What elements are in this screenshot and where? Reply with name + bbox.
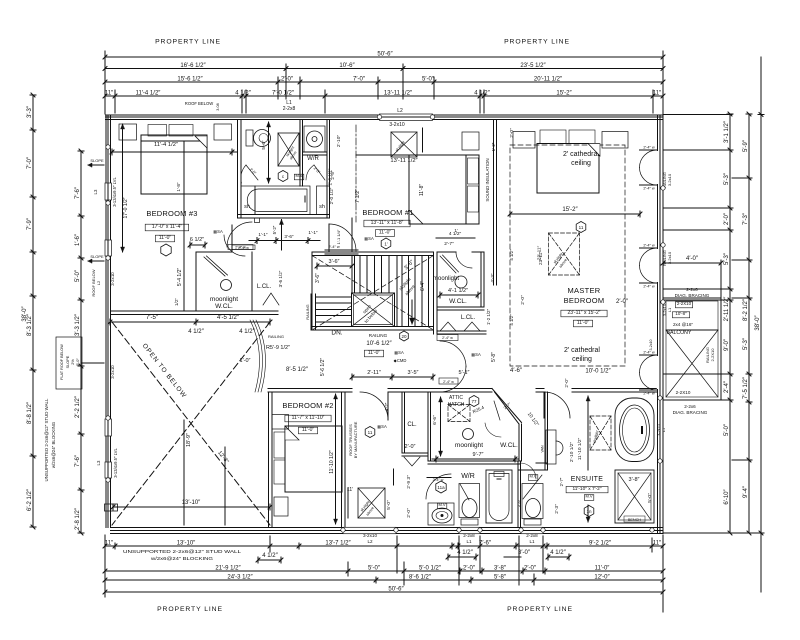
svg-text:1′: 1′ [454, 228, 457, 233]
svg-text:2′-6″: 2′-6″ [516, 498, 521, 507]
svg-text:13′-7 1/2″: 13′-7 1/2″ [325, 540, 351, 546]
svg-text:2x4 @16″: 2x4 @16″ [673, 322, 693, 327]
svg-text:2′-0″: 2′-0″ [509, 128, 515, 138]
svg-text:10′-8″: 10′-8″ [675, 311, 687, 316]
svg-text:1′-2 1/2″: 1′-2 1/2″ [486, 309, 491, 325]
svg-text:BEDROOM #2: BEDROOM #2 [282, 401, 333, 410]
svg-text:M.V: M.V [529, 474, 536, 479]
svg-text:23′-5 1/2″: 23′-5 1/2″ [520, 63, 546, 69]
svg-text:L3: L3 [93, 189, 98, 194]
svg-text:2′-0″: 2′-0″ [724, 212, 730, 225]
svg-text:W.CL.: W.CL. [449, 298, 467, 305]
svg-text:12′-3″: 12′-3″ [216, 450, 229, 465]
svg-text:2-2x8: 2-2x8 [283, 106, 296, 112]
svg-text:sh: sh [244, 204, 250, 210]
svg-text:moonlight: moonlight [455, 442, 483, 449]
svg-text:L2: L2 [96, 280, 101, 285]
svg-text:ROOF BELOW: ROOF BELOW [185, 101, 213, 106]
svg-text:SLOPE: SLOPE [90, 254, 104, 259]
svg-text:3′-8″: 3′-8″ [629, 477, 640, 483]
svg-text:24′-3 1/2″: 24′-3 1/2″ [227, 574, 253, 580]
svg-text:13′-10″: 13′-10″ [177, 540, 196, 546]
svg-text:1/2″: 1/2″ [174, 298, 179, 306]
svg-text:1′-2″: 1′-2″ [491, 142, 496, 151]
svg-text:moonlight: moonlight [210, 296, 238, 303]
svg-text:2′-7″: 2′-7″ [444, 241, 454, 247]
svg-text:▦SA: ▦SA [394, 350, 404, 355]
svg-text:W.CL.: W.CL. [500, 442, 518, 449]
svg-text:1′-1″: 1′-1″ [258, 232, 268, 237]
svg-text:11: 11 [368, 430, 373, 435]
svg-text:BEDROOM #3: BEDROOM #3 [146, 209, 197, 218]
svg-text:7′-6″: 7′-6″ [479, 540, 492, 546]
svg-text:L2: L2 [397, 108, 403, 114]
svg-text:5′-4 1/2″: 5′-4 1/2″ [177, 268, 183, 287]
svg-text:2′-11″: 2′-11″ [367, 370, 381, 376]
svg-text:20: 20 [401, 334, 407, 339]
svg-text:3-2x10: 3-2x10 [649, 340, 653, 351]
svg-text:◆CMD: ◆CMD [394, 358, 407, 363]
svg-text:5′-0″: 5′-0″ [75, 269, 81, 282]
svg-text:OPEN TO BELOW: OPEN TO BELOW [141, 342, 188, 399]
svg-text:11′-0″: 11′-0″ [577, 320, 590, 326]
svg-text:3-2x10: 3-2x10 [667, 251, 672, 264]
svg-text:3′-6″: 3′-6″ [284, 234, 294, 239]
svg-text:15′-6 1/2″: 15′-6 1/2″ [177, 76, 203, 82]
svg-text:5′-3″: 5′-3″ [724, 172, 730, 185]
svg-text:PROPERTY LINE: PROPERTY LINE [157, 606, 223, 613]
svg-text:2′-0″: 2′-0″ [564, 378, 569, 388]
svg-text:5′-0″: 5′-0″ [368, 565, 381, 571]
svg-text:6′-6″: 6′-6″ [432, 415, 438, 425]
svg-text:2′-0″: 2′-0″ [524, 565, 537, 571]
svg-text:BEDROOM #1: BEDROOM #1 [362, 208, 413, 217]
svg-text:11′-10 1/2″: 11′-10 1/2″ [329, 450, 335, 474]
svg-text:5′-0″: 5′-0″ [647, 493, 653, 503]
svg-text:13′-10″: 13′-10″ [182, 500, 201, 506]
svg-text:11′-4 1/2″: 11′-4 1/2″ [154, 142, 178, 148]
svg-text:7′-6″: 7′-6″ [75, 454, 81, 467]
svg-text:2′-5″: 2′-5″ [330, 170, 335, 180]
svg-text:5′-6 1/2″: 5′-6 1/2″ [320, 358, 326, 377]
svg-text:11′-7″ x 11′-10″: 11′-7″ x 11′-10″ [292, 415, 325, 421]
svg-text:11′-0″: 11′-0″ [368, 350, 381, 356]
svg-text:38′-0″: 38′-0″ [22, 305, 28, 321]
svg-text:ceiling: ceiling [571, 160, 591, 167]
svg-text:11′-0″: 11′-0″ [302, 427, 315, 433]
svg-text:13′-11 1/2″: 13′-11 1/2″ [390, 158, 417, 164]
svg-text:6′-2 1/2″: 6′-2 1/2″ [27, 488, 33, 511]
svg-text:50′-6″: 50′-6″ [388, 586, 404, 592]
svg-text:2′-4″ w: 2′-4″ w [643, 146, 655, 150]
svg-text:1′-8″: 1′-8″ [176, 182, 181, 192]
svg-text:3′-6″: 3′-6″ [403, 259, 415, 271]
svg-text:5′-6″: 5′-6″ [261, 140, 266, 150]
svg-text:12′-0″: 12′-0″ [594, 574, 610, 580]
svg-text:11″: 11″ [105, 90, 114, 96]
svg-text:CL.: CL. [407, 422, 417, 428]
svg-text:BY MANUFACTURE: BY MANUFACTURE [353, 421, 358, 458]
svg-text:2′ cathedral: 2′ cathedral [564, 347, 600, 354]
svg-text:3-13/4x9.5″ LVL: 3-13/4x9.5″ LVL [112, 177, 117, 207]
svg-text:DIAG. BRACING: DIAG. BRACING [675, 293, 710, 298]
svg-text:L1: L1 [529, 539, 535, 544]
svg-text:BALCONY: BALCONY [667, 330, 692, 336]
svg-text:3-2x10: 3-2x10 [110, 365, 115, 379]
svg-text:UNSUPPORTED 2-2x6@12″ STUD: UNSUPPORTED 2-2x6@12″ STUD WALL [123, 549, 242, 554]
svg-text:5′-8″: 5′-8″ [494, 574, 507, 580]
svg-text:11′-0″: 11′-0″ [595, 565, 611, 571]
svg-text:13′-11″ x 11′-8″: 13′-11″ x 11′-8″ [371, 220, 404, 226]
svg-text:5′-1″: 5′-1″ [459, 370, 470, 376]
svg-text:77: 77 [471, 399, 477, 404]
svg-text:1′-1″: 1′-1″ [308, 230, 318, 235]
svg-text:23′-11″: 23′-11″ [537, 245, 543, 260]
svg-text:23′-11″ x 15′-2″: 23′-11″ x 15′-2″ [567, 310, 600, 316]
svg-text:RAILING: RAILING [268, 334, 284, 339]
svg-text:3′-3″: 3′-3″ [27, 105, 33, 118]
svg-text:4 1/2″: 4 1/2″ [188, 329, 204, 335]
svg-text:4 1/2″: 4 1/2″ [235, 90, 251, 96]
svg-text:2′-10″: 2′-10″ [336, 135, 342, 148]
svg-text:2′-0″: 2′-0″ [405, 444, 416, 450]
svg-text:2′-4″ w: 2′-4″ w [643, 351, 655, 355]
svg-text:W/R: W/R [461, 473, 475, 480]
svg-text:FLAT ROOF BELOW: FLAT ROOF BELOW [60, 344, 64, 380]
svg-text:2′-4″ w: 2′-4″ w [643, 285, 655, 289]
svg-text:11′-0″: 11′-0″ [379, 230, 392, 236]
svg-text:5′-0″: 5′-0″ [724, 423, 730, 436]
svg-text:2′-4″ w: 2′-4″ w [643, 187, 655, 191]
svg-text:2′ cathedral: 2′ cathedral [563, 151, 599, 158]
svg-text:5′-3″: 5′-3″ [724, 252, 730, 265]
svg-text:2-2X10: 2-2X10 [710, 348, 715, 362]
svg-text:L1: L1 [662, 428, 666, 432]
svg-text:2′-4″ w: 2′-4″ w [442, 336, 453, 340]
svg-text:2′-4″ w: 2′-4″ w [328, 245, 340, 249]
svg-text:7′-5″: 7′-5″ [146, 315, 159, 321]
svg-text:▦SA: ▦SA [471, 352, 481, 357]
svg-text:7′-9″: 7′-9″ [27, 217, 33, 230]
svg-text:10′-0 1/2″: 10′-0 1/2″ [585, 369, 611, 375]
svg-text:1′: 1′ [384, 241, 388, 246]
svg-text:11″: 11″ [653, 90, 662, 96]
svg-text:2′-7″: 2′-7″ [559, 477, 564, 486]
svg-text:5′-8″: 5′-8″ [491, 352, 497, 362]
svg-text:M.V: M.V [295, 173, 302, 178]
svg-text:5′-3″: 5′-3″ [743, 337, 749, 350]
svg-text:BEDROOM: BEDROOM [564, 296, 605, 305]
svg-text:5′-0″: 5′-0″ [386, 500, 392, 510]
svg-text:R5′-9 1/2″: R5′-9 1/2″ [266, 345, 290, 351]
svg-text:3′-8″: 3′-8″ [494, 565, 507, 571]
svg-text:7′-0″: 7′-0″ [353, 76, 366, 82]
svg-text:21′-9 1/2″: 21′-9 1/2″ [215, 565, 241, 571]
svg-text:7′-0 1/2″: 7′-0 1/2″ [272, 90, 295, 96]
svg-text:11″: 11″ [105, 540, 114, 546]
svg-text:3-2x10: 3-2x10 [657, 424, 661, 436]
svg-text:4′-6″: 4′-6″ [510, 368, 523, 374]
svg-text:5′-0 1/2″: 5′-0 1/2″ [419, 565, 442, 571]
svg-text:W/R: W/R [307, 156, 319, 162]
svg-text:2′-4″ w: 2′-4″ w [238, 246, 249, 250]
svg-text:15′-2″: 15′-2″ [562, 207, 578, 213]
svg-text:HATCH: HATCH [448, 402, 465, 408]
svg-text:18′-9″: 18′-9″ [186, 433, 192, 447]
svg-text:6′-4″: 6′-4″ [420, 281, 426, 291]
svg-text:3′-6″: 3′-6″ [329, 259, 340, 265]
svg-text:RAILING: RAILING [369, 333, 388, 338]
svg-text:PROPERTY LINE: PROPERTY LINE [507, 606, 573, 613]
svg-text:7 1/2″: 7 1/2″ [355, 189, 361, 203]
svg-text:1n: 1n [586, 509, 592, 514]
svg-text:2′-9 3″: 2′-9 3″ [406, 475, 412, 489]
svg-text:4 1/2″: 4 1/2″ [262, 553, 278, 559]
svg-text:2′-4″ w: 2′-4″ w [643, 244, 655, 248]
svg-text:11′-8″: 11′-8″ [419, 184, 425, 197]
svg-text:7′-3″: 7′-3″ [743, 212, 749, 225]
svg-text:15′-2″: 15′-2″ [556, 90, 572, 96]
svg-text:7′-6″: 7′-6″ [75, 186, 81, 199]
svg-text:3′-5″: 3′-5″ [408, 370, 419, 376]
svg-text:2′-0″: 2′-0″ [281, 76, 294, 82]
svg-text:2′-8 1/2″: 2′-8 1/2″ [75, 507, 81, 530]
svg-text:BENCH: BENCH [628, 518, 642, 522]
svg-text:2-2x6: 2-2x6 [686, 287, 698, 292]
svg-text:11a: 11a [437, 485, 445, 490]
svg-text:7′-0″: 7′-0″ [27, 156, 33, 169]
svg-text:50′-6″: 50′-6″ [377, 51, 393, 57]
svg-text:1′-0″: 1′-0″ [240, 358, 251, 364]
svg-text:M.V: M.V [438, 502, 445, 507]
svg-text:L2: L2 [367, 539, 373, 544]
svg-text:3-13/4x9.5″ LVL: 3-13/4x9.5″ LVL [113, 448, 118, 478]
svg-text:2-2X10: 2-2X10 [676, 390, 691, 395]
svg-text:3-2x10: 3-2x10 [389, 122, 405, 128]
svg-text:9′-4″: 9′-4″ [743, 485, 749, 498]
svg-text:PROPERTY LINE: PROPERTY LINE [504, 39, 570, 46]
svg-text:ATTIC: ATTIC [449, 395, 463, 401]
svg-text:SLOPE: SLOPE [90, 158, 104, 163]
svg-text:L.CL.: L.CL. [257, 284, 272, 290]
svg-text:▦SA: ▦SA [213, 229, 223, 234]
svg-text:9′-0″: 9′-0″ [724, 338, 730, 351]
svg-text:2′-0″: 2′-0″ [463, 565, 476, 571]
svg-text:c: c [282, 174, 285, 179]
svg-text:ceiling: ceiling [572, 356, 592, 363]
svg-text:PROPERTY LINE: PROPERTY LINE [155, 39, 221, 46]
svg-text:11: 11 [579, 225, 584, 230]
svg-text:2′-3″: 2′-3″ [554, 504, 560, 514]
svg-text:10′-6 1/2″: 10′-6 1/2″ [366, 341, 392, 347]
svg-text:9′-2 1/2″: 9′-2 1/2″ [589, 540, 612, 546]
svg-text:2′-0″: 2′-0″ [520, 295, 526, 305]
svg-text:8′-6 1/2″: 8′-6 1/2″ [409, 574, 432, 580]
svg-text:ENSUITE: ENSUITE [571, 476, 603, 483]
svg-text:16′-6 1/2″: 16′-6 1/2″ [180, 63, 206, 69]
svg-text:5′-2″: 5′-2″ [272, 225, 277, 234]
svg-text:2′-4″ w: 2′-4″ w [643, 392, 655, 396]
svg-text:L.CL.: L.CL. [461, 315, 476, 321]
svg-text:10 1/2″: 10 1/2″ [526, 411, 540, 427]
svg-text:skylight: skylight [395, 139, 407, 152]
svg-text:5′-0″: 5′-0″ [422, 76, 435, 82]
svg-text:4 1/2″: 4 1/2″ [457, 550, 473, 556]
svg-text:3′-6″: 3′-6″ [315, 273, 321, 283]
svg-text:UNSUPPORTED 2-2x6@12″ STUD WAL: UNSUPPORTED 2-2x6@12″ STUD WALL [44, 398, 49, 481]
svg-text:4 1/2″: 4 1/2″ [239, 329, 255, 335]
svg-text:2′-0″: 2′-0″ [406, 508, 412, 518]
svg-text:3-2x10: 3-2x10 [110, 272, 115, 286]
svg-text:5′-9″: 5′-9″ [743, 139, 749, 152]
svg-text:5′-0″: 5′-0″ [76, 358, 80, 366]
svg-text:3′-3 1/2″: 3′-3 1/2″ [75, 313, 81, 336]
svg-text:2-2x6: 2-2x6 [684, 404, 696, 409]
svg-text:SOUND INSULATION: SOUND INSULATION [485, 158, 490, 201]
svg-text:2′-4″: 2′-4″ [724, 380, 730, 393]
svg-text:L1: L1 [466, 539, 472, 544]
svg-text:2′-2 1/2″: 2′-2 1/2″ [75, 395, 81, 418]
svg-text:6′-10″: 6′-10″ [724, 488, 730, 504]
svg-text:DIAG. BRACING: DIAG. BRACING [673, 410, 708, 415]
svg-text:DN.: DN. [331, 330, 342, 337]
svg-text:MASTER: MASTER [567, 286, 600, 295]
svg-text:sh: sh [319, 204, 325, 210]
svg-text:▦SA: ▦SA [377, 424, 387, 429]
svg-text:7′-5 1/2″: 7′-5 1/2″ [743, 376, 749, 399]
svg-text:6 1/2″: 6 1/2″ [190, 237, 204, 243]
svg-text:3′-6 1/2″: 3′-6 1/2″ [278, 270, 283, 287]
svg-text:11′-10″ x 7′-2″: 11′-10″ x 7′-2″ [572, 486, 601, 492]
svg-text:20′-11 1/2″: 20′-11 1/2″ [534, 76, 563, 82]
svg-text:17′-0 1/2″: 17′-0 1/2″ [123, 197, 129, 218]
svg-text:VAN: VAN [541, 445, 545, 452]
svg-text:11′-0″: 11′-0″ [159, 235, 172, 241]
svg-text:2′-5″: 2′-5″ [249, 167, 258, 176]
svg-text:3-2x10: 3-2x10 [667, 173, 672, 186]
svg-text:11″: 11″ [653, 540, 662, 546]
svg-text:▦SA: ▦SA [364, 236, 374, 241]
svg-text:4′-0″: 4′-0″ [686, 256, 699, 262]
svg-text:38′-0″: 38′-0″ [755, 314, 761, 330]
svg-text:w/2x6@24″ BLOCKING: w/2x6@24″ BLOCKING [151, 556, 214, 561]
svg-text:4 1/2″: 4 1/2″ [550, 550, 566, 556]
svg-text:4 1/2″: 4 1/2″ [474, 90, 490, 96]
svg-text:11′-10 1/2″: 11′-10 1/2″ [577, 437, 583, 460]
svg-text:2′-0 1/2″: 2′-0 1/2″ [329, 187, 334, 204]
svg-text:3.08: 3.08 [216, 103, 220, 110]
svg-text:1′-1 1/4″: 1′-1 1/4″ [336, 229, 341, 244]
svg-text:4′-1 1/2″: 4′-1 1/2″ [448, 288, 468, 294]
svg-text:4′-3″: 4′-3″ [490, 273, 495, 283]
svg-text:w/2x6@24″ BLOCKING: w/2x6@24″ BLOCKING [51, 421, 56, 468]
svg-text:2%: 2% [71, 359, 75, 365]
svg-text:2′-0″: 2′-0″ [616, 299, 629, 305]
svg-text:13′-11 1/2″: 13′-11 1/2″ [384, 90, 413, 96]
svg-text:8′-8 1/2″: 8′-8 1/2″ [27, 401, 33, 424]
svg-text:10′-6″: 10′-6″ [339, 63, 355, 69]
svg-text:3′-0″: 3′-0″ [518, 550, 531, 556]
svg-text:8′-2 1/2″: 8′-2 1/2″ [743, 298, 749, 321]
svg-text:L1: L1 [667, 307, 672, 312]
svg-text:17′-0″ x 11′-4″: 17′-0″ x 11′-4″ [152, 224, 183, 230]
svg-text:3′-1 1/2″: 3′-1 1/2″ [724, 120, 730, 143]
svg-text:1′-6″: 1′-6″ [75, 233, 81, 246]
svg-text:2′-10 1/2″: 2′-10 1/2″ [569, 442, 575, 463]
svg-text:W.CL.: W.CL. [215, 303, 233, 310]
svg-text:M.V: M.V [585, 494, 592, 499]
svg-text:RAILING: RAILING [306, 304, 310, 319]
svg-text:4′-5 1/2″: 4′-5 1/2″ [217, 315, 240, 321]
svg-text:11′-4 1/2″: 11′-4 1/2″ [136, 90, 162, 96]
svg-text:L3: L3 [96, 460, 101, 465]
svg-text:9′-7″: 9′-7″ [473, 452, 484, 458]
svg-text:8′-5 1/2″: 8′-5 1/2″ [286, 367, 309, 373]
svg-text:2-2X10: 2-2X10 [677, 301, 692, 306]
svg-text:2′-4″ w: 2′-4″ w [443, 380, 454, 384]
svg-text:SLOPE: SLOPE [66, 355, 70, 368]
